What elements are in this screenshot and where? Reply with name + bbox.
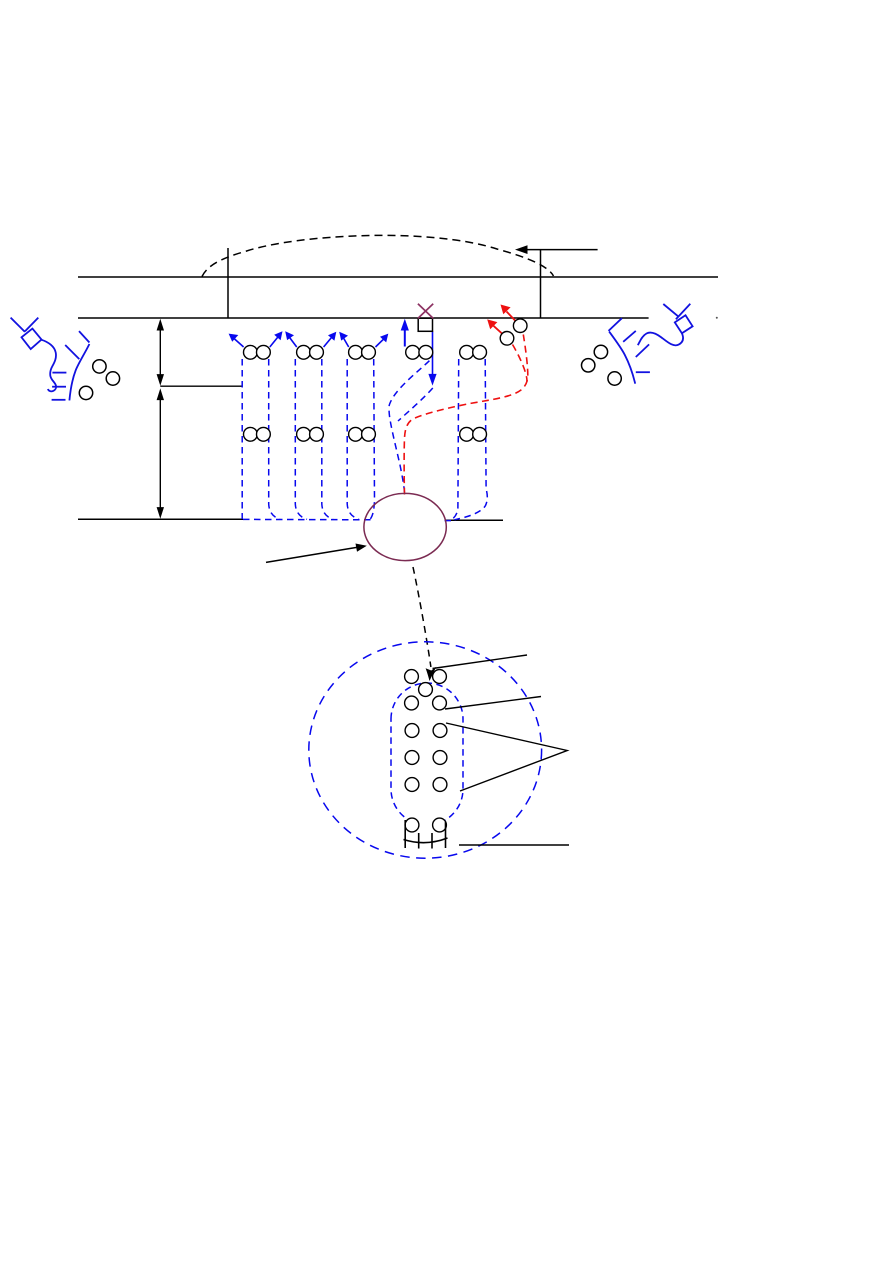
right spray icon nozzle top line xyxy=(609,318,622,331)
grout pipe loop 3 left line xyxy=(347,359,359,519)
circle pair row2 loop3 xyxy=(349,427,376,441)
callout V lines xyxy=(446,723,567,791)
left spray icon hose xyxy=(42,340,57,392)
blue arrow 1 up-left xyxy=(229,334,244,347)
detail pipe end tick 2 xyxy=(431,833,433,849)
karst cavity ellipse xyxy=(364,493,446,560)
dimension tick line xyxy=(160,385,242,387)
blue arrow 7 vertical up xyxy=(401,319,409,347)
detail view big dashed circle xyxy=(309,642,542,858)
ground surface line upper xyxy=(78,276,718,278)
stray ink dot xyxy=(716,317,718,319)
left spray icon diamond xyxy=(22,329,42,350)
detail hole circles row F xyxy=(405,778,447,792)
grout pipe loop 5 left line (to cavity right) xyxy=(452,359,459,519)
red dashed water path from cavity xyxy=(404,335,528,495)
red arrow upper xyxy=(501,305,516,322)
right spray icon V lines xyxy=(663,304,690,319)
red arrow lower xyxy=(487,319,502,333)
left spray icon dash 1 xyxy=(52,372,66,374)
black square (pipe mouth) below X xyxy=(418,318,432,331)
detail pipe end tick 1 xyxy=(418,833,420,849)
grout pipe loop 2 left line xyxy=(295,359,307,519)
dashed connector from cavity to detail view xyxy=(413,567,431,667)
ground line lower (tunnel crown level) xyxy=(78,317,649,319)
mask over capsule bottom apex xyxy=(414,817,437,833)
right spray icon inner diagonal 2 xyxy=(636,344,649,357)
detail grout body capsule dashed xyxy=(391,683,463,825)
grout hole circle pair row1 loop1 xyxy=(244,345,271,359)
blue arrow 8 vertical down xyxy=(428,332,436,386)
callout line 2 xyxy=(445,697,541,710)
leader arrow top right xyxy=(515,245,598,254)
vertical line left xyxy=(227,248,229,318)
dashed floor run between loops and cavity xyxy=(243,518,375,520)
water inflow circle A xyxy=(513,319,527,333)
left spray icon inner diagonal xyxy=(65,345,79,359)
dimension arrow upper xyxy=(157,319,164,386)
detail hole circles row C xyxy=(405,696,447,710)
dashed arc (excavation contour) xyxy=(202,235,554,276)
grout pipe loop 2 right line xyxy=(322,359,333,519)
water inflow circle B xyxy=(500,332,514,346)
right spray icon inner diagonal 1 xyxy=(623,331,636,342)
tunnel floor line right of cavity xyxy=(446,519,503,521)
callout bottom line xyxy=(459,844,569,846)
grout pipe loop 4 right strand (below down arrow) xyxy=(398,388,433,421)
grout pipe loop 1 left line xyxy=(241,359,243,519)
callout line 1 xyxy=(433,655,528,669)
left spray icon dash 2 xyxy=(52,386,66,388)
tunnel floor line left xyxy=(78,518,243,520)
blue arrow 6 up-right xyxy=(376,334,389,347)
red dashed branch from lower circle xyxy=(513,345,528,382)
detail hole circle row B center xyxy=(419,683,433,697)
left spray icon V lines xyxy=(11,318,39,332)
left spray icon spray curve xyxy=(69,344,89,400)
circle pair row1 loop2 xyxy=(297,345,324,359)
right spray icon spray curve xyxy=(609,332,635,384)
detail hole circles row G bottom xyxy=(405,818,446,832)
blue arrow 4 up-right xyxy=(324,332,337,347)
right icon droplet circles xyxy=(582,345,622,385)
circle pair row1 loop4 xyxy=(406,345,433,359)
circle pair row2 loop1 xyxy=(244,427,271,441)
dimension arrow lower xyxy=(157,388,164,518)
grout pipe loop 1 right line xyxy=(269,359,280,519)
right spray icon hose xyxy=(638,333,683,346)
detail pipe end left wall xyxy=(404,820,406,848)
right spray icon diamond xyxy=(675,315,693,333)
right spray icon dash xyxy=(636,371,650,373)
detail hole circles row E xyxy=(405,751,447,765)
connector arrowhead xyxy=(426,667,437,681)
dashed run right of cavity xyxy=(445,520,454,522)
circle pair row2 loop2 xyxy=(297,427,324,441)
arrow pointing to cavity xyxy=(266,544,367,563)
left spray icon nozzle top line xyxy=(79,331,89,342)
X marker (blocked hole) xyxy=(418,304,433,319)
left spray icon dash 3 xyxy=(52,399,66,401)
detail hole circles row D xyxy=(405,724,447,738)
left icon droplet circles xyxy=(79,360,119,400)
grout pipe loop 3 right line xyxy=(370,359,375,519)
circle pair row1 loop3 xyxy=(349,345,376,359)
detail hole circles row A xyxy=(405,670,447,684)
circle pair row2 loop5 xyxy=(460,427,487,441)
blue arrow 2 up-right xyxy=(270,331,283,347)
detail pipe end curved base xyxy=(404,838,448,843)
grout pipe loop 4 left line (to cavity top) xyxy=(389,361,429,492)
grout pipe loop 5 right line xyxy=(455,359,488,520)
detail pipe end right wall xyxy=(445,822,447,848)
vertical line right xyxy=(540,250,542,318)
blue arrow 3 up-left xyxy=(285,331,297,347)
circle pair row1 loop5 xyxy=(460,345,487,359)
blue arrow 5 up-left xyxy=(339,332,349,347)
